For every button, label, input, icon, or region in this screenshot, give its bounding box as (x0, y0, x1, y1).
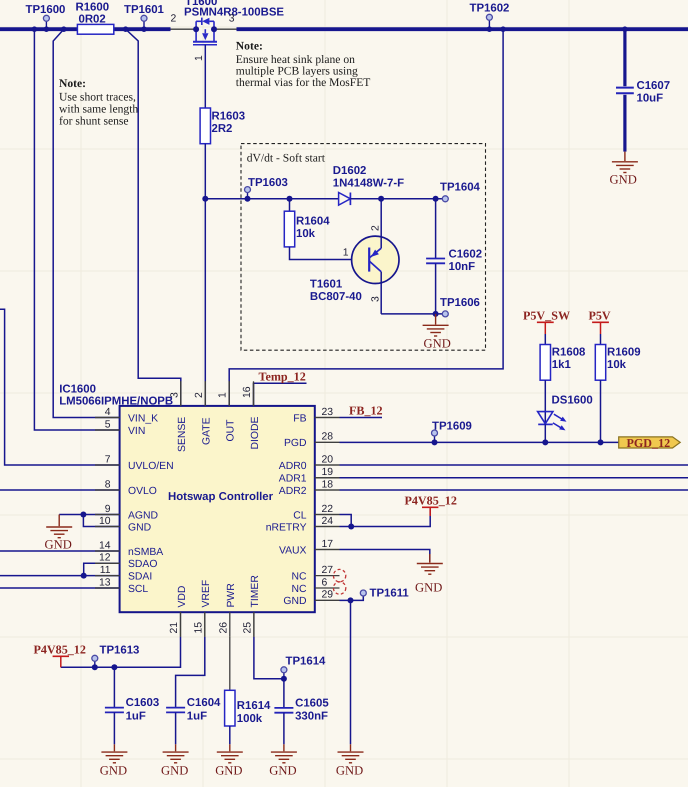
wire nSMBA to left edge (0, 550, 120, 552)
test point TP1601 (124, 4, 165, 29)
svg-text:OVLO: OVLO (128, 486, 157, 497)
svg-text:10: 10 (99, 516, 111, 527)
svg-text:TP1602: TP1602 (470, 3, 510, 15)
note left (59, 77, 138, 128)
svg-text:28: 28 (322, 432, 334, 443)
power port P4V85_12 left (34, 643, 86, 668)
svg-text:GND: GND (283, 596, 306, 607)
svg-text:16: 16 (242, 386, 253, 398)
svg-text:R1614: R1614 (237, 700, 271, 712)
wire AGND-GND strap (83, 515, 119, 527)
wire GND pin 29 (340, 596, 364, 600)
ground below C1603 (113, 744, 115, 751)
svg-text:TP1614: TP1614 (286, 656, 327, 668)
ground below C1604 (175, 744, 177, 751)
ground at AGND (58, 515, 60, 527)
svg-text:PGD_12: PGD_12 (627, 436, 671, 450)
IC pin stubs right (black) (315, 418, 340, 601)
svg-text:NC: NC (291, 571, 307, 582)
wire ADR2 to right edge (340, 489, 688, 491)
svg-text:ADR1: ADR1 (279, 474, 307, 485)
svg-text:26: 26 (218, 622, 229, 634)
ground below TP1606 (435, 314, 437, 325)
svg-text:VDD: VDD (177, 586, 188, 608)
svg-text:BC807-40: BC807-40 (310, 291, 362, 303)
svg-text:2: 2 (194, 392, 205, 398)
svg-text:23: 23 (322, 407, 334, 418)
resistor R1608 (540, 345, 550, 381)
svg-text:17: 17 (322, 539, 334, 550)
junction pin29 ground node (348, 597, 354, 603)
svg-text:TP1611: TP1611 (370, 588, 410, 600)
test point TP1614 (281, 656, 326, 682)
svg-text:10k: 10k (296, 228, 316, 240)
svg-text:GND: GND (336, 764, 363, 778)
wire main power bus (thick) left segment (0, 27, 688, 31)
resistor R1604 (289, 199, 291, 211)
svg-text:11: 11 (100, 565, 111, 576)
svg-text:3: 3 (169, 392, 180, 398)
LED DS1600 (538, 395, 593, 431)
IC pin stub overlay left (black over wires) (95, 418, 120, 589)
note top middle (236, 40, 371, 90)
svg-text:GND: GND (128, 522, 151, 533)
svg-text:nRETRY: nRETRY (266, 522, 307, 533)
capacitor C1605 (274, 679, 329, 745)
junction C1603 top (111, 664, 117, 670)
IC pin names right (266, 413, 307, 607)
svg-text:GND: GND (415, 581, 442, 595)
IC pin numbers bottom (rotated) (169, 622, 253, 634)
wire PWR to R1614 (229, 637, 231, 691)
svg-text:C1603: C1603 (126, 697, 160, 709)
svg-text:7: 7 (105, 454, 111, 465)
resistor R1603 (200, 108, 210, 144)
junction emitter gnd node (433, 311, 439, 317)
svg-text:Note:: Note: (59, 77, 86, 90)
svg-text:GND: GND (424, 337, 451, 351)
svg-text:2: 2 (171, 14, 177, 25)
svg-text:1k1: 1k1 (552, 359, 572, 371)
junction SDAO/SDAI (81, 573, 87, 579)
resistor R1609 (595, 345, 605, 381)
svg-text:14: 14 (99, 540, 111, 551)
transistor T1601 BC807-40 (310, 199, 399, 314)
svg-text:18: 18 (322, 479, 334, 490)
ground below R1614 (229, 744, 231, 751)
svg-text:P4V85_12: P4V85_12 (405, 494, 457, 508)
wire pin29 ground vertical (350, 600, 352, 744)
svg-text:1uF: 1uF (126, 710, 146, 722)
svg-text:TP1604: TP1604 (440, 182, 481, 194)
svg-text:0R02: 0R02 (79, 13, 106, 25)
IC pin numbers top (rotated) (169, 386, 253, 398)
junction MOSFET source stub (193, 26, 199, 32)
IC pin stubs left (black) (95, 418, 120, 589)
svg-text:29: 29 (322, 590, 334, 601)
wire SDAI to left edge (0, 575, 120, 577)
test point TP1602 (470, 3, 510, 30)
svg-text:PWR: PWR (226, 583, 237, 608)
svg-text:TP1609: TP1609 (432, 421, 472, 433)
svg-text:R1608: R1608 (552, 347, 586, 359)
ground below pin29 wire (350, 744, 352, 751)
svg-text:GND: GND (215, 764, 242, 778)
svg-text:P4V85_12: P4V85_12 (34, 643, 86, 657)
resistor R1600 (76, 2, 114, 35)
svg-text:24: 24 (322, 516, 334, 527)
IC pin numbers left (99, 407, 111, 589)
svg-text:for shunt sense: for shunt sense (59, 115, 129, 128)
wire R1608 to LED (544, 380, 546, 410)
wire TIMER to C1605 (254, 637, 284, 679)
power port P5V_SW (523, 309, 570, 345)
test point TP1613 (92, 645, 140, 671)
svg-text:P5V: P5V (589, 309, 611, 323)
svg-text:R1604: R1604 (296, 216, 330, 228)
wire R1609 to PGD net (600, 380, 602, 442)
dashed soft-start box (241, 144, 486, 351)
svg-text:C1602: C1602 (449, 249, 483, 261)
IC pin stub overlay right (black over wires) (315, 418, 340, 601)
wire VREF to C1604 (176, 637, 205, 708)
op-amp U1 : hotswap controller IC1600 body (59, 384, 315, 613)
svg-text:13: 13 (99, 577, 111, 588)
svg-text:ADR2: ADR2 (279, 486, 307, 497)
svg-text:1: 1 (194, 55, 205, 61)
svg-text:5: 5 (105, 419, 111, 430)
diode D1602 1N4148W-7-F (333, 165, 404, 205)
wire R1604 bottom to transistor base (290, 247, 370, 260)
port PGD_12 (619, 436, 681, 450)
svg-text:8: 8 (105, 479, 111, 490)
ground below C1605 (283, 744, 285, 751)
svg-text:VAUX: VAUX (279, 545, 307, 556)
svg-text:1N4148W-7-F: 1N4148W-7-F (333, 178, 404, 190)
svg-text:DS1600: DS1600 (552, 395, 593, 407)
svg-text:10uF: 10uF (637, 93, 664, 105)
svg-text:10nF: 10nF (449, 261, 476, 273)
capacitor C1602 (426, 199, 482, 314)
svg-text:T1601: T1601 (310, 279, 343, 291)
wire DIODE pin Temp_12 stub (254, 383, 307, 406)
svg-text:FB_12: FB_12 (349, 404, 383, 418)
junction dots on bus (32, 26, 628, 32)
svg-text:GND: GND (161, 764, 188, 778)
svg-text:6: 6 (322, 577, 328, 588)
wire FB stub (340, 417, 383, 419)
svg-text:C1607: C1607 (637, 80, 671, 92)
svg-text:DIODE: DIODE (250, 417, 261, 450)
svg-text:Hotswap Controller: Hotswap Controller (168, 491, 274, 503)
svg-text:1uF: 1uF (187, 710, 207, 722)
junction R1609/PGD (598, 439, 604, 445)
svg-text:R1603: R1603 (212, 111, 246, 123)
svg-text:1: 1 (218, 392, 229, 398)
wire VIN_K kelvin sense diagonal and vertical to pin 4 (53, 29, 119, 417)
svg-text:NC: NC (291, 584, 307, 595)
svg-text:330nF: 330nF (295, 711, 328, 723)
IC pin names left (128, 413, 174, 595)
ground below C1607 (624, 152, 626, 161)
wire diode cathode to TP1604 (350, 198, 445, 200)
junction gate node (202, 196, 208, 202)
svg-text:VIN: VIN (128, 426, 145, 437)
svg-text:AGND: AGND (128, 510, 158, 521)
svg-text:1: 1 (343, 248, 349, 259)
svg-text:SENSE: SENSE (177, 417, 188, 452)
svg-text:UVLO/EN: UVLO/EN (128, 461, 174, 472)
svg-text:2R2: 2R2 (212, 123, 233, 135)
wire VDD rail (61, 637, 181, 668)
capacitor C1604 (166, 697, 221, 744)
wire emitter to TP1606 (381, 313, 445, 315)
svg-text:ADR0: ADR0 (279, 461, 307, 472)
svg-text:10k: 10k (607, 359, 627, 371)
svg-text:20: 20 (322, 454, 334, 465)
IC pin names top (rotated) (177, 417, 261, 452)
svg-text:22: 22 (322, 504, 334, 515)
IC pin stub overlay top/bottom (black over wires) (181, 381, 254, 637)
svg-text:OUT: OUT (226, 419, 237, 442)
test point TP1600 (26, 4, 66, 29)
svg-text:25: 25 (242, 622, 253, 634)
svg-text:TP1606: TP1606 (440, 297, 480, 309)
wire AGND to ground (59, 514, 119, 516)
svg-text:Note:: Note: (236, 40, 263, 53)
junction CL/nRETRY (348, 524, 354, 530)
svg-text:12: 12 (99, 553, 111, 564)
svg-text:VREF: VREF (201, 580, 212, 608)
junction collector node (378, 196, 384, 202)
svg-text:thermal vias for the MosFET: thermal vias for the MosFET (236, 76, 371, 89)
wire UVLO/EN to left edge (0, 309, 120, 465)
test point TP1609 (432, 421, 472, 446)
wire PGD to port (340, 441, 619, 443)
svg-text:15: 15 (193, 622, 204, 634)
transistor T1600 MOSFET PSMN4R8-100BSE (193, 18, 217, 45)
wire nRETRY to P4V85_12 (340, 509, 431, 527)
wire SDAO jog to SDAI (84, 563, 120, 575)
svg-text:SCL: SCL (128, 584, 148, 595)
no-ERC marker pin 27 (333, 569, 345, 581)
svg-text:4: 4 (105, 407, 111, 418)
svg-text:C1605: C1605 (295, 698, 329, 710)
junction R1604 top (287, 196, 293, 202)
svg-text:VIN_K: VIN_K (128, 413, 158, 424)
svg-text:IC1600: IC1600 (59, 384, 96, 396)
wire VAUX to ground (340, 550, 430, 563)
svg-text:GND: GND (269, 764, 296, 778)
svg-text:3: 3 (229, 14, 235, 25)
power port P4V85_12 right (405, 494, 457, 516)
capacitor C1603 (105, 667, 159, 744)
test point TP1603 (245, 177, 288, 202)
resistor R1614 (225, 690, 235, 726)
svg-text:SDAI: SDAI (128, 571, 152, 582)
svg-text:TIMER: TIMER (250, 575, 261, 608)
test point TP1606 (442, 311, 448, 317)
svg-text:TP1601: TP1601 (124, 4, 165, 16)
svg-text:19: 19 (322, 467, 334, 478)
svg-text:PGD: PGD (284, 438, 307, 449)
svg-text:TP1603: TP1603 (248, 177, 288, 189)
ground at VAUX (429, 554, 431, 563)
svg-text:9: 9 (105, 504, 111, 515)
svg-text:GND: GND (45, 538, 72, 552)
wire gate from R1603 down to GATE pin (204, 144, 206, 406)
wire SENSE kelvin diagonal and vertical to pin 3 (126, 29, 181, 406)
svg-text:3: 3 (371, 296, 382, 302)
svg-text:FB: FB (293, 413, 306, 424)
svg-text:2: 2 (371, 225, 382, 231)
svg-text:LM5066IPMHE/NOPB: LM5066IPMHE/NOPB (59, 396, 173, 408)
wire soft-start node horizontal (205, 198, 338, 200)
wire VIN sense left vertical to pin 5 (34, 29, 119, 430)
wire OUT pin up and over to bus (229, 29, 503, 406)
power port P5V (589, 309, 611, 345)
junction C1602 top (433, 196, 439, 202)
wire ADR1 to right edge (340, 477, 688, 479)
wire ADR0 to right edge (340, 464, 688, 466)
svg-text:21: 21 (169, 622, 180, 634)
svg-text:GND: GND (610, 173, 637, 187)
junction MOSFET drain stub (211, 26, 217, 32)
svg-text:GATE: GATE (202, 417, 213, 445)
no-ERC marker pin 6 (333, 582, 345, 594)
test point TP1611 (360, 590, 366, 596)
svg-text:CL: CL (293, 510, 307, 521)
wire CL down to nRETRY (340, 515, 352, 527)
svg-text:R1600: R1600 (76, 2, 110, 14)
junction LED/PGD (542, 439, 548, 445)
svg-text:100k: 100k (237, 713, 263, 725)
wire OVLO to left edge (0, 489, 120, 491)
wire R1614 to ground (229, 726, 231, 744)
IC pin numbers right (322, 407, 334, 601)
wire LED to PGD net (544, 424, 546, 442)
svg-text:R1609: R1609 (607, 347, 641, 359)
svg-text:SDAO: SDAO (128, 559, 157, 570)
svg-text:D1602: D1602 (333, 165, 367, 177)
capacitor C1607 with thick leads (623, 29, 626, 151)
IC pin names bottom (rotated) (177, 575, 261, 608)
test point TP1604 (442, 196, 448, 202)
svg-text:dV/dt - Soft start: dV/dt - Soft start (247, 152, 326, 165)
svg-text:Temp_12: Temp_12 (259, 370, 306, 384)
wire SCL to left edge (0, 587, 120, 589)
svg-text:27: 27 (322, 565, 334, 576)
IC pin stubs top and bottom (black) (181, 381, 254, 637)
junction AGND strap (80, 512, 86, 518)
svg-text:P5V_SW: P5V_SW (523, 309, 570, 323)
svg-text:TP1613: TP1613 (100, 645, 140, 657)
svg-text:nSMBA: nSMBA (128, 547, 163, 558)
svg-text:GND: GND (100, 764, 127, 778)
wire thin segments through R1600 and MOSFET pins (77, 28, 236, 30)
svg-text:TP1600: TP1600 (26, 4, 66, 16)
svg-text:C1604: C1604 (187, 697, 221, 709)
